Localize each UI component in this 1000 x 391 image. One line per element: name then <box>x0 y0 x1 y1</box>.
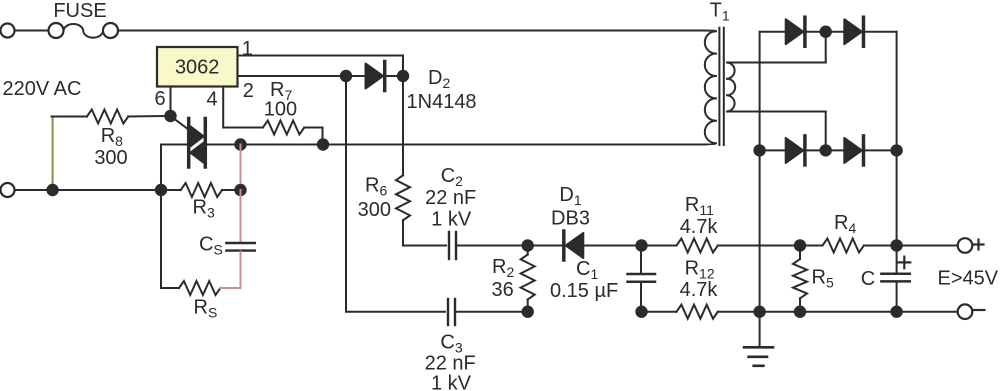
resistor R5 <box>793 246 807 312</box>
label R2 <box>492 256 514 280</box>
label 4.7k <box>680 279 719 301</box>
label E>45V <box>938 268 999 290</box>
svg-text:3062: 3062 <box>175 57 220 79</box>
label R11 <box>685 194 714 218</box>
wire <box>322 133 324 145</box>
svg-text:1: 1 <box>242 38 253 60</box>
pin 2 <box>238 76 341 102</box>
wire <box>807 31 845 33</box>
wire <box>728 111 826 113</box>
label 300 <box>94 147 127 169</box>
svg-text:FUSE: FUSE <box>53 0 106 22</box>
node <box>522 239 534 251</box>
wire <box>825 112 827 151</box>
label C <box>861 268 875 290</box>
node <box>522 306 534 318</box>
resistor RS <box>161 190 241 295</box>
svg-text:220V AC: 220V AC <box>3 78 82 100</box>
svg-text:300: 300 <box>358 199 391 221</box>
svg-text:36: 36 <box>491 279 513 301</box>
label R8 <box>101 125 123 149</box>
node <box>753 306 765 318</box>
wire <box>865 149 896 151</box>
label DB3 <box>551 208 590 230</box>
svg-text:6: 6 <box>154 88 165 110</box>
node <box>155 184 167 196</box>
capacitor C2 <box>449 232 528 259</box>
diode D2 <box>346 62 403 91</box>
svg-text:R8: R8 <box>101 125 123 149</box>
label 36 <box>491 279 513 301</box>
svg-text:300: 300 <box>94 147 127 169</box>
label C3 <box>440 331 462 355</box>
transformer T1 secondary <box>727 63 735 112</box>
svg-text:4: 4 <box>206 88 217 110</box>
node <box>794 306 806 318</box>
wire <box>222 189 240 191</box>
wire <box>718 245 800 247</box>
svg-text:R3: R3 <box>193 197 215 221</box>
svg-text:R6: R6 <box>365 174 387 198</box>
resistor R11 <box>677 239 718 253</box>
label R12 <box>685 258 715 282</box>
node <box>397 70 409 82</box>
IC U1 3062 <box>157 47 238 87</box>
label C2 <box>441 165 463 189</box>
label 0.15 uF <box>550 280 618 302</box>
label D2 <box>428 67 450 91</box>
label T1 <box>710 0 730 24</box>
node <box>317 138 329 150</box>
svg-text:R5: R5 <box>812 266 834 290</box>
resistor R2 <box>521 246 535 312</box>
node <box>890 239 902 251</box>
terminal: AC line input (bottom) <box>1 183 15 197</box>
svg-text:D1: D1 <box>559 184 581 208</box>
svg-text:CS: CS <box>199 234 223 258</box>
label CS <box>199 234 223 258</box>
svg-text:T1: T1 <box>710 0 730 24</box>
transformer T1 core <box>719 28 723 145</box>
resistor R12 <box>677 305 718 319</box>
wire <box>207 144 705 146</box>
label 1 kV <box>431 209 472 231</box>
node <box>820 144 832 156</box>
resistor R7 <box>263 121 323 139</box>
node <box>234 184 246 196</box>
svg-text:R2: R2 <box>492 256 514 280</box>
capacitor CS <box>226 190 254 288</box>
label 4.7k <box>680 216 719 238</box>
node <box>890 306 902 318</box>
terminal: AC line input (top) <box>1 24 15 38</box>
label RS <box>194 297 218 321</box>
wire <box>642 311 677 313</box>
label 300 <box>358 199 391 221</box>
node <box>635 239 647 251</box>
wire <box>865 31 896 33</box>
diode D4 <box>844 17 863 46</box>
svg-text:R4: R4 <box>834 212 856 236</box>
node <box>234 138 246 150</box>
pin 6 <box>154 87 170 110</box>
wire <box>346 76 445 312</box>
wire <box>240 145 242 191</box>
svg-text:2: 2 <box>243 80 254 102</box>
label C1 <box>576 258 598 282</box>
diode D5 <box>786 136 805 165</box>
label D1 <box>559 184 581 208</box>
triac Q1 <box>171 116 206 167</box>
wire <box>118 30 705 32</box>
pin 4 <box>206 87 262 128</box>
wire <box>897 245 958 247</box>
wire <box>161 144 187 146</box>
terminal output - <box>958 304 985 319</box>
resistor R3 <box>181 183 222 197</box>
svg-text:100: 100 <box>264 99 297 121</box>
svg-text:RS: RS <box>194 297 218 321</box>
node gate junction <box>164 110 176 122</box>
label FUSE <box>53 0 106 22</box>
wire <box>825 32 827 63</box>
svg-text:22 nF: 22 nF <box>425 352 476 374</box>
svg-text:C1: C1 <box>576 258 598 282</box>
diode D3 <box>786 17 805 46</box>
wire <box>15 30 49 32</box>
node <box>820 26 832 38</box>
label R3 <box>193 197 215 221</box>
svg-text:4.7k: 4.7k <box>680 216 719 238</box>
transformer T1 primary <box>705 31 716 145</box>
wire <box>402 56 404 77</box>
wire <box>160 145 162 191</box>
capacitor C1 <box>628 246 656 312</box>
svg-text:22 nF: 22 nF <box>425 187 476 209</box>
diac D1 <box>528 231 642 260</box>
node <box>753 144 765 156</box>
resistor R8 <box>52 110 165 191</box>
ground <box>744 312 773 366</box>
wire <box>896 32 898 246</box>
label 22 nF <box>425 187 476 209</box>
label 100 <box>264 99 297 121</box>
capacitor C <box>881 246 909 312</box>
pin 1 <box>238 38 404 60</box>
node <box>635 306 647 318</box>
node <box>46 184 58 196</box>
fuse F1 <box>49 23 119 38</box>
wire <box>728 62 826 64</box>
terminal output + <box>958 238 984 253</box>
svg-text:1 kV: 1 kV <box>431 209 472 231</box>
label 22 nF <box>425 352 476 374</box>
label R4 <box>834 212 856 236</box>
svg-text:R11: R11 <box>685 194 714 218</box>
svg-text:1 kV: 1 kV <box>431 372 472 391</box>
node <box>890 144 902 156</box>
wire <box>760 149 786 151</box>
label 1N4148 <box>407 91 477 113</box>
wire <box>759 32 761 312</box>
label 220V AC <box>3 78 82 100</box>
label + polarity <box>898 257 910 269</box>
svg-text:E>45V: E>45V <box>938 268 999 290</box>
label R7 <box>270 79 292 103</box>
svg-text:D2: D2 <box>428 67 450 91</box>
svg-text:0.15 µF: 0.15 µF <box>550 280 618 302</box>
node <box>340 70 352 82</box>
node <box>794 239 806 251</box>
svg-text:C: C <box>861 268 875 290</box>
resistor R6 <box>396 76 446 246</box>
label R5 <box>812 266 834 290</box>
wire <box>760 31 786 33</box>
diode D6 <box>844 136 863 165</box>
wire <box>718 311 958 313</box>
label 1 kV <box>431 372 472 391</box>
wire <box>642 245 677 247</box>
svg-text:1N4148: 1N4148 <box>407 91 477 113</box>
svg-text:4.7k: 4.7k <box>680 279 719 301</box>
wire <box>807 149 845 151</box>
capacitor C3 <box>448 299 528 325</box>
label R6 <box>365 174 387 198</box>
svg-text:DB3: DB3 <box>551 208 590 230</box>
svg-text:C2: C2 <box>441 165 463 189</box>
wire <box>15 189 181 191</box>
resistor R4 <box>800 239 897 253</box>
